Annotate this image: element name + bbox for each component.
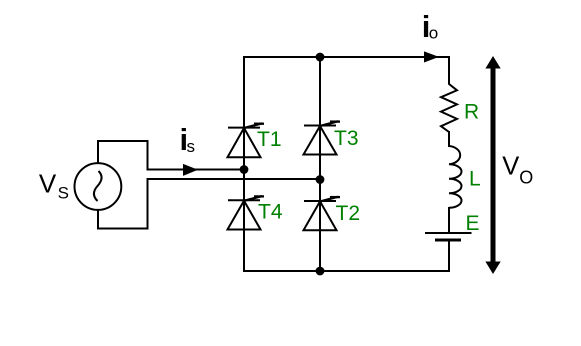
svg-text:R: R <box>464 100 479 123</box>
resistor R <box>441 84 457 132</box>
thyristor T1 <box>228 123 265 157</box>
svg-text:T2: T2 <box>336 202 361 225</box>
svg-text:T3: T3 <box>334 127 359 150</box>
label VO <box>502 153 533 188</box>
wire E to bottom rail <box>448 242 450 273</box>
wire source bottom loop <box>98 179 148 229</box>
label VS <box>39 168 69 202</box>
thyristor T2 <box>304 197 341 231</box>
svg-text:V: V <box>39 168 57 198</box>
thyristor T4 <box>228 196 265 229</box>
label io <box>422 9 438 44</box>
wire top rail <box>243 56 449 58</box>
svg-text:L: L <box>469 167 481 190</box>
arrow is <box>183 164 198 176</box>
node bottom junction <box>316 267 325 276</box>
arrow io <box>424 51 439 62</box>
wire is (upper source wire) <box>147 169 245 171</box>
label is <box>180 122 196 157</box>
svg-text:V: V <box>502 153 519 181</box>
svg-text:T1: T1 <box>257 128 282 151</box>
wire lower source wire <box>147 178 321 180</box>
battery E plate long <box>425 232 472 234</box>
inductor L <box>449 146 461 208</box>
svg-text:S: S <box>58 184 69 203</box>
battery E plate short <box>435 238 461 241</box>
node left mid junction <box>240 165 249 174</box>
arrow VO double-headed <box>485 56 500 274</box>
wire R to L <box>448 131 450 147</box>
wire load top drop <box>448 56 450 85</box>
svg-text:s: s <box>187 137 196 156</box>
svg-text:o: o <box>429 23 438 42</box>
AC source VS circle <box>75 163 122 210</box>
wire right bridge leg <box>319 56 321 272</box>
wire left bridge leg <box>243 56 245 272</box>
wire source top loop <box>98 141 148 171</box>
svg-text:E: E <box>466 212 480 235</box>
svg-text:O: O <box>519 168 533 188</box>
AC source sine squiggle <box>94 171 102 201</box>
wire L to E <box>448 207 450 232</box>
node right mid junction <box>316 175 325 184</box>
svg-text:T4: T4 <box>258 201 283 224</box>
wire bottom rail <box>243 270 449 272</box>
thyristor T3 <box>304 121 341 154</box>
node top junction <box>316 53 325 62</box>
